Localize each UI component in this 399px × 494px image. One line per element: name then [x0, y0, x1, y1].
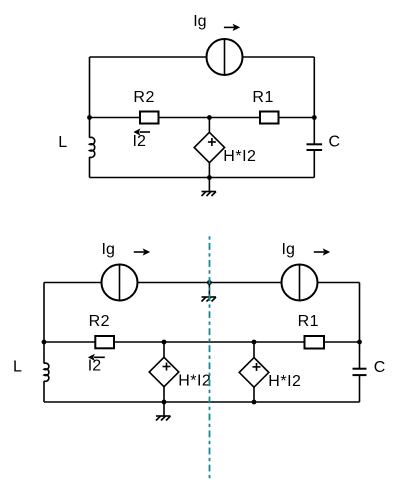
svg-text:H*I2: H*I2	[178, 373, 211, 390]
wire: middle horizontal, left of R2	[90, 117, 141, 119]
wire: right vertical from top wire to right node	[313, 57, 315, 118]
wire: junction down to diamond top	[208, 118, 210, 133]
svg-text:H*I2: H*I2	[268, 373, 301, 390]
current source Ig (bottom circuit, left)	[102, 265, 138, 301]
wire: diamond bottom to bottom wire	[208, 163, 210, 178]
svg-text:C: C	[374, 359, 386, 376]
wire: top-left horizontal segment	[90, 56, 207, 58]
wire: left diamond bottom to bottom wire	[163, 387, 165, 402]
node: junction on top wire at axis	[207, 280, 212, 285]
current source Ig (top circuit)	[207, 39, 243, 75]
ground (bottom circuit, on top wire)	[202, 283, 217, 302]
wire: middle horizontal, right of R1	[324, 341, 360, 343]
wire: top horizontal left segment	[44, 282, 102, 284]
svg-text:C: C	[329, 134, 341, 151]
svg-text:I2: I2	[88, 358, 101, 375]
svg-text:R1: R1	[298, 313, 319, 330]
wire: top horizontal right segment	[318, 282, 360, 284]
svg-text:H*I2: H*I2	[223, 148, 256, 165]
wire: right vertical (top to middle)	[359, 283, 361, 343]
node: left middle junction	[87, 115, 92, 120]
wire: middle horizontal, R2 to diamond node	[159, 117, 261, 119]
arrow: I2 current direction (bottom circuit)	[88, 354, 105, 361]
node: junction at top of left dependent source	[162, 340, 167, 345]
wire: top horizontal middle segment	[138, 282, 282, 284]
resistor R1 (top circuit)	[260, 112, 279, 124]
svg-text:Ig: Ig	[102, 241, 115, 258]
svg-text:R2: R2	[89, 313, 110, 330]
arrow: Ig current direction (bottom circuit, left)	[134, 248, 150, 255]
svg-text:L: L	[58, 134, 67, 151]
svg-text:R1: R1	[252, 89, 273, 106]
dependent source H*I2 (bottom circuit, left diamond)	[149, 357, 179, 386]
node: right middle junction	[357, 340, 362, 345]
node: center middle junction (top of dependent source)	[207, 115, 212, 120]
arrow: Ig current direction (bottom circuit, right)	[314, 248, 330, 255]
axis of symmetry (teal dash-dot)	[209, 236, 211, 478]
svg-text:I2: I2	[133, 133, 146, 150]
dependent source H*I2 (top circuit, diamond)	[194, 132, 224, 162]
ground (bottom circuit, under left diamond)	[156, 402, 171, 421]
capacitor C (bottom circuit)	[353, 342, 367, 402]
node: left middle junction	[42, 340, 47, 345]
resistor R2 (bottom circuit)	[95, 336, 114, 348]
wire: right diamond bottom to bottom wire	[253, 387, 255, 402]
wire: junction down to right diamond top	[253, 342, 255, 358]
wire: junction down to left diamond top	[163, 342, 165, 357]
wire: bottom horizontal (top circuit)	[90, 177, 315, 179]
wire: left vertical from top wire to node L-top	[89, 57, 91, 118]
resistor R1 (bottom circuit)	[305, 336, 325, 349]
ground (top circuit)	[202, 178, 217, 197]
wire: middle horizontal, R1 to right node	[279, 117, 315, 119]
node: junction at top of right dependent source	[252, 340, 257, 345]
wire: middle horizontal, left of R2	[44, 341, 95, 343]
arrow: I2 current direction (top circuit)	[133, 128, 150, 135]
svg-text:R2: R2	[133, 89, 154, 106]
svg-text:Ig: Ig	[282, 241, 295, 258]
node: bottom junction under left diamond	[162, 400, 167, 405]
wire: left vertical (top to middle)	[43, 283, 45, 343]
node: bottom junction under right diamond	[252, 400, 257, 405]
current source Ig (bottom circuit, right)	[282, 265, 318, 301]
svg-text:Ig: Ig	[193, 13, 206, 30]
wire: middle horizontal, R2 to R1	[114, 341, 305, 343]
inductor L (bottom circuit)	[44, 342, 49, 402]
node: right middle junction	[312, 115, 317, 120]
capacitor C (top circuit)	[307, 118, 323, 178]
inductor L (top circuit)	[90, 118, 95, 178]
wire: bottom horizontal (bottom circuit)	[44, 401, 360, 403]
node: bottom center junction	[207, 175, 212, 180]
wire: top-right horizontal segment	[243, 56, 315, 58]
resistor R2 (top circuit)	[140, 112, 159, 124]
arrow: Ig current direction (top circuit)	[224, 24, 240, 31]
svg-text:L: L	[13, 359, 22, 376]
dependent source H*I2 (bottom circuit, right diamond)	[239, 358, 269, 388]
